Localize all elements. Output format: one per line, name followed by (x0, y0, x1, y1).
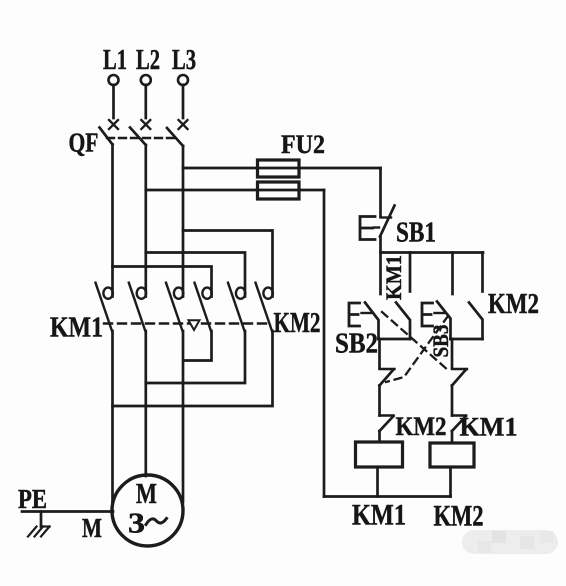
pushbutton SB1 actuator E (360, 217, 375, 240)
pushbutton SB1 NC bar (381, 216, 392, 218)
wire to KM1 interlock (451, 386, 454, 416)
wire into KM2 coil (451, 431, 454, 443)
breaker QF blade pole 3 (167, 128, 183, 146)
breaker QF fixed contact x pole 2 (141, 120, 150, 129)
coil KM2 (430, 443, 474, 467)
wire motor phase W (right) (182, 331, 185, 502)
svg-text:L2: L2 (136, 45, 160, 76)
wire L1 branch to KM2 pole 4 (113, 267, 212, 297)
breaker QF linkage dashed (107, 137, 175, 139)
wire L1 drop to QF (112, 85, 115, 118)
wire control supply drop to SB1 (379, 168, 382, 217)
svg-text:FU2: FU2 (281, 130, 325, 159)
pushbutton SB2 actuator E (349, 303, 360, 326)
svg-text:M: M (136, 478, 157, 510)
wire left branch to SB3 NC (378, 339, 381, 368)
pushbutton SB3 NO blade (437, 302, 451, 340)
linkage arrow marker (189, 320, 200, 330)
svg-text:M: M (82, 513, 102, 543)
wire KM2 aux upper (481, 253, 484, 292)
wire PE line to motor (22, 510, 113, 513)
wire SB3 KM2aux bottom join (451, 338, 483, 341)
wire L3 branch to fuse FU2 upper (183, 167, 381, 170)
wire KM2 coil to rail (449, 467, 452, 497)
dashed interlock SB3 to left NC (386, 316, 448, 382)
svg-text:L1: L1 (103, 45, 127, 76)
wire L3 branch to KM2 pole 6 (183, 231, 273, 297)
wire SB3 branch upper (451, 253, 454, 295)
contactor KM1 main contact pole 1 (96, 283, 113, 331)
wire motor phase U (left) (111, 331, 114, 504)
contact KM2 interlock NC blade (380, 416, 394, 431)
wire bottom return rail (324, 495, 451, 498)
wire SB2 branch upper (379, 253, 382, 295)
wire motor phase V (middle) (144, 331, 147, 476)
svg-text:KM1: KM1 (460, 413, 518, 442)
contact SB2 linked NC blade (452, 370, 466, 386)
breaker QF blade pole 1 (100, 128, 113, 145)
contactor KM2 main contact pole 5 (228, 283, 245, 331)
wire SB1 to node (379, 237, 382, 253)
svg-text:PE: PE (18, 484, 47, 514)
breaker QF blade pole 2 (130, 128, 146, 146)
contact KM2 aux NO blade (469, 303, 483, 340)
contactor KM2 main contact pole 4 (195, 283, 212, 331)
svg-text:SB2: SB2 (335, 329, 378, 360)
contactor KM1 main contact pole 3 (166, 283, 183, 331)
contact KM1 aux NO blade (396, 303, 410, 340)
svg-text:KM1: KM1 (50, 312, 103, 344)
SB1 actuator link dash (374, 226, 379, 228)
motor M circle (112, 475, 183, 546)
fuse FU2 body upper (258, 160, 300, 177)
wire L2 QF to KM1 contact (144, 145, 147, 297)
wire L3 QF to KM1 contact (182, 146, 185, 297)
contactor KM1 main contact pole 2 (129, 283, 146, 331)
wire to KM2 interlock (378, 386, 381, 416)
terminal circle L3 (178, 75, 188, 85)
wire KM1 coil to rail (376, 467, 379, 497)
wire SB2 KM1aux bottom join (379, 338, 411, 341)
svg-text:L3: L3 (172, 45, 196, 76)
wire into KM1 coil (378, 431, 381, 442)
svg-text:SB3: SB3 (428, 325, 453, 358)
svg-text:KM2: KM2 (274, 307, 321, 339)
wire L2 branch to fuse FU2 lower (146, 189, 324, 192)
breaker QF fixed contact x pole 3 (179, 120, 188, 129)
contact SB2 linked NC bar (right branch) (452, 368, 467, 370)
wire L3 drop to QF (182, 85, 185, 118)
wire KM1 aux upper (409, 253, 412, 292)
svg-text:3: 3 (128, 508, 145, 540)
contact KM1 interlock NC bar (452, 414, 466, 416)
contact SB3 linked NC blade (380, 370, 394, 386)
contactor linkage dashed with arrow (104, 322, 271, 324)
wire KM2 pole5 output to phase V (146, 331, 245, 383)
svg-text:SB1: SB1 (396, 217, 436, 249)
coil KM1 (356, 442, 403, 467)
svg-text:KM1: KM1 (352, 499, 406, 532)
ground symbol hatching (28, 527, 50, 537)
wire L2 branch to KM2 pole 5 (146, 253, 245, 297)
contactor KM2 main contact pole 6 (256, 283, 273, 331)
svg-text:KM2: KM2 (434, 500, 484, 533)
wire control return left vertical (323, 190, 326, 497)
wire L2 drop to QF (144, 85, 147, 118)
wire KM2 pole6 output crossover to phase U (113, 331, 273, 406)
breaker QF fixed contact x pole 1 (109, 120, 118, 129)
pushbutton SB1 NC blade (380, 206, 395, 237)
wire right branch to SB2 NC (451, 339, 454, 368)
pushbutton SB2 NO blade (365, 303, 379, 340)
wire control node horizontal (381, 251, 484, 254)
svg-text:KM2: KM2 (396, 412, 447, 441)
dashed interlock SB2 to right NC (382, 312, 449, 371)
SB3 actuator link dash (435, 312, 445, 314)
contact KM2 interlock NC bar (380, 414, 394, 416)
contact SB3 linked NC bar (left branch) (380, 368, 395, 370)
motor tilde (146, 519, 167, 525)
wire KM2 pole4 output crossover to phase W (184, 331, 212, 361)
pushbutton SB3 actuator E (422, 303, 433, 326)
terminal circle L2 (141, 75, 151, 85)
svg-text:KM2: KM2 (488, 289, 539, 320)
SB2 actuator link dash (362, 312, 372, 314)
svg-text:KM1: KM1 (381, 255, 406, 300)
wire L1 QF to KM1 contact (111, 145, 114, 297)
ground stub wire (40, 512, 43, 527)
terminal circle L1 (109, 75, 119, 85)
contact KM1 interlock NC blade (452, 416, 466, 431)
fuse FU2 body lower (258, 182, 300, 199)
watermark blob (462, 530, 558, 554)
svg-text:QF: QF (69, 128, 99, 158)
